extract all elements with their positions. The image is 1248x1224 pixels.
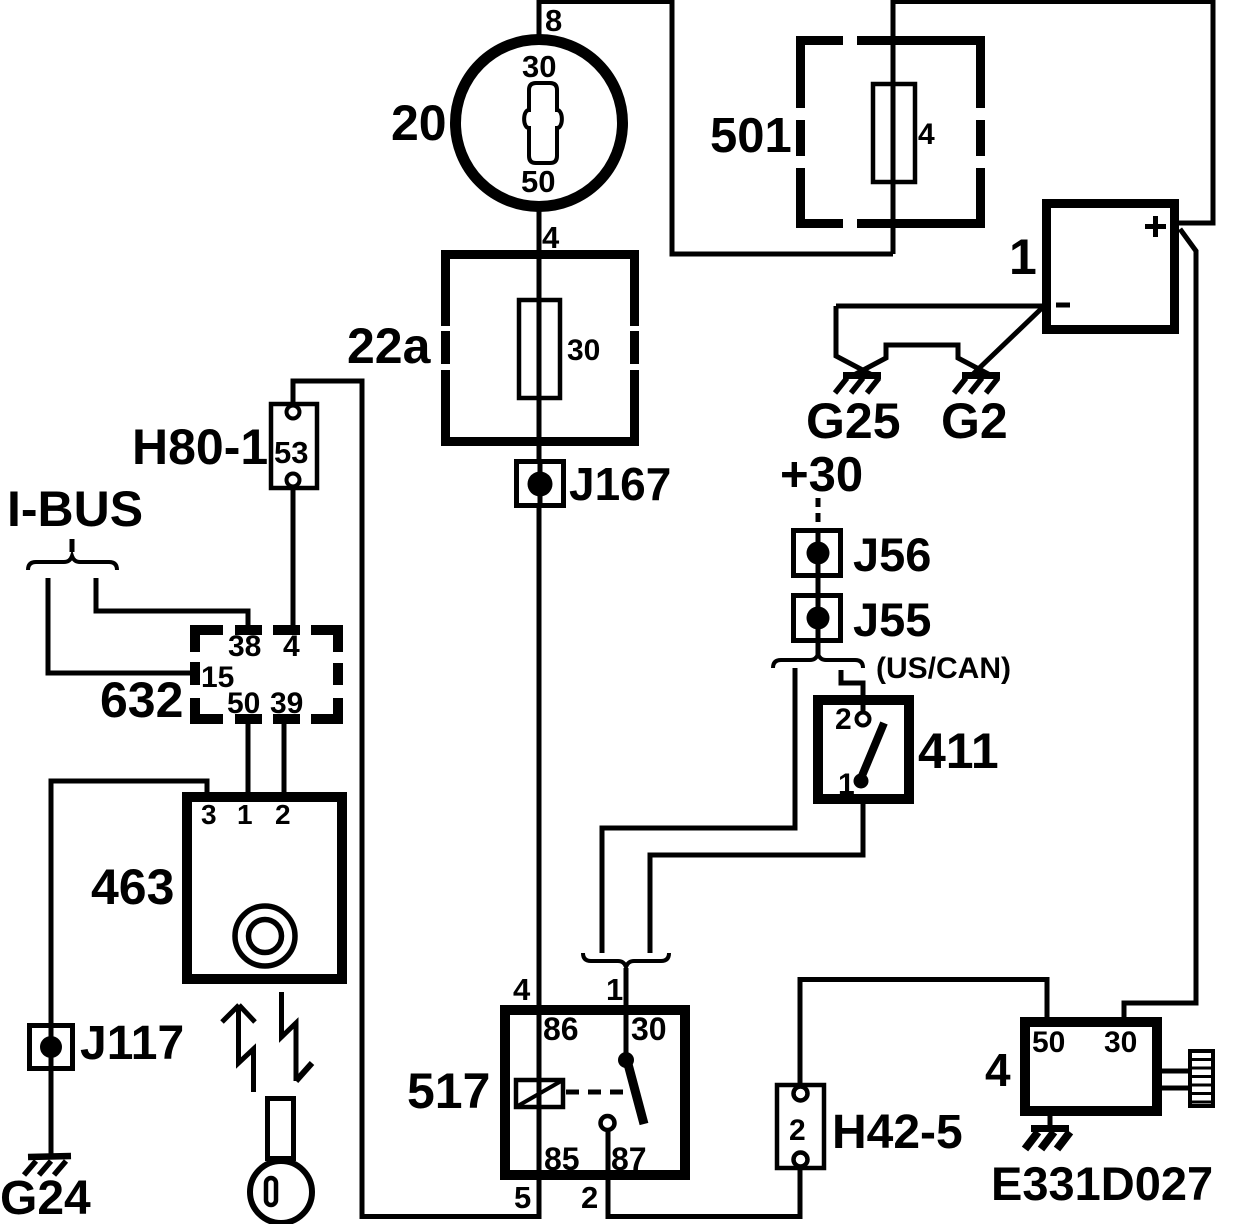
svg-text:501: 501 — [710, 109, 792, 163]
svg-text:J167: J167 — [569, 458, 671, 510]
svg-text:4: 4 — [542, 220, 560, 255]
svg-text:G24: G24 — [0, 1172, 91, 1224]
svg-text:2: 2 — [581, 1180, 598, 1215]
svg-text:4: 4 — [918, 118, 935, 151]
svg-text:+30: +30 — [780, 448, 863, 502]
svg-text:632: 632 — [100, 672, 183, 728]
svg-text:E331D027: E331D027 — [991, 1157, 1213, 1210]
svg-text:2: 2 — [789, 1114, 806, 1147]
svg-text:2: 2 — [835, 703, 852, 736]
svg-text:1: 1 — [1009, 229, 1037, 285]
svg-text:85: 85 — [544, 1141, 580, 1177]
svg-text:39: 39 — [270, 687, 303, 720]
svg-text:8: 8 — [545, 3, 562, 38]
svg-text:G25: G25 — [806, 393, 901, 449]
svg-text:87: 87 — [611, 1141, 647, 1177]
svg-text:30: 30 — [522, 49, 556, 84]
svg-text:4: 4 — [513, 972, 531, 1007]
svg-text:G2: G2 — [941, 393, 1008, 449]
svg-text:H80-1: H80-1 — [132, 419, 268, 475]
svg-text:2: 2 — [275, 799, 291, 830]
svg-text:411: 411 — [918, 723, 999, 779]
svg-text:J55: J55 — [853, 593, 931, 646]
svg-text:5: 5 — [514, 1180, 531, 1215]
svg-text:50: 50 — [1032, 1026, 1065, 1059]
svg-text:H42-5: H42-5 — [832, 1106, 963, 1159]
svg-text:38: 38 — [228, 630, 261, 663]
svg-text:517: 517 — [407, 1063, 490, 1119]
svg-text:(US/CAN): (US/CAN) — [876, 652, 1011, 685]
svg-text:53: 53 — [274, 435, 308, 470]
svg-text:4: 4 — [283, 630, 300, 663]
svg-text:50: 50 — [227, 687, 260, 720]
svg-text:50: 50 — [521, 164, 555, 199]
svg-text:30: 30 — [567, 334, 600, 367]
svg-text:30: 30 — [631, 1011, 667, 1047]
svg-text:I-BUS: I-BUS — [7, 481, 143, 537]
svg-text:J56: J56 — [853, 528, 931, 581]
svg-text:30: 30 — [1104, 1026, 1137, 1059]
svg-text:22a: 22a — [347, 318, 432, 374]
svg-text:463: 463 — [91, 859, 174, 915]
svg-text:1: 1 — [606, 972, 623, 1007]
svg-text:3: 3 — [201, 799, 217, 830]
svg-text:1: 1 — [237, 799, 253, 830]
svg-text:J117: J117 — [80, 1017, 184, 1070]
svg-text:1: 1 — [838, 768, 855, 801]
svg-text:4: 4 — [985, 1044, 1011, 1096]
svg-text:20: 20 — [391, 95, 447, 151]
svg-text:86: 86 — [543, 1011, 579, 1047]
